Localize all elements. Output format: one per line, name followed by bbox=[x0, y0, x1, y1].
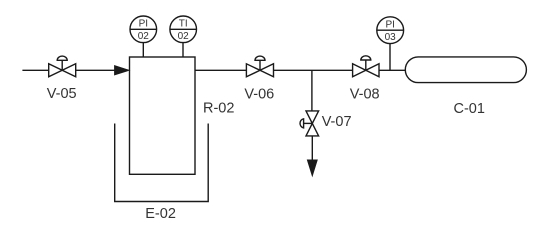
valve V-08 bbox=[353, 56, 379, 77]
instrument PI-02 bbox=[130, 16, 157, 43]
instrument stem PI-03 bbox=[389, 44, 391, 71]
instrument TI-02 bbox=[170, 16, 197, 43]
wire R-02 to V-06 bbox=[195, 69, 246, 71]
wire V-08 to C-01 bbox=[379, 69, 405, 71]
svg-text:02: 02 bbox=[178, 31, 190, 42]
vessel R-02 bbox=[130, 57, 196, 174]
svg-text:R-02: R-02 bbox=[203, 101, 234, 117]
wire inlet to V-05 bbox=[22, 69, 48, 71]
svg-text:V-07: V-07 bbox=[322, 114, 352, 130]
wire V-05 to R-02 inlet bbox=[76, 69, 116, 71]
svg-text:V-05: V-05 bbox=[47, 86, 77, 102]
jacket E-02 bbox=[115, 124, 209, 202]
svg-text:PI: PI bbox=[385, 19, 394, 30]
arrow into R-02 bbox=[115, 66, 128, 75]
instrument PI-03 bbox=[377, 17, 404, 44]
arrow drain down bbox=[308, 160, 317, 175]
valve V-07 bbox=[300, 111, 319, 136]
svg-text:E-02: E-02 bbox=[145, 206, 176, 222]
wire V-07 to drain arrow bbox=[311, 136, 313, 161]
valve V-06 bbox=[246, 56, 273, 77]
svg-text:02: 02 bbox=[138, 31, 150, 42]
wire branch down to V-07 bbox=[311, 70, 313, 111]
svg-text:TI: TI bbox=[179, 19, 188, 30]
instrument stem PI-02 bbox=[142, 43, 144, 57]
vessel C-01 bbox=[405, 57, 526, 83]
instrument stem TI-02 bbox=[182, 43, 184, 57]
svg-text:V-08: V-08 bbox=[350, 87, 380, 103]
valve V-05 bbox=[49, 56, 76, 77]
svg-text:03: 03 bbox=[385, 32, 397, 43]
svg-text:PI: PI bbox=[139, 19, 148, 30]
wire V-06 to V-08 bbox=[274, 69, 353, 71]
svg-text:V-06: V-06 bbox=[244, 87, 274, 103]
svg-text:C-01: C-01 bbox=[453, 101, 484, 117]
